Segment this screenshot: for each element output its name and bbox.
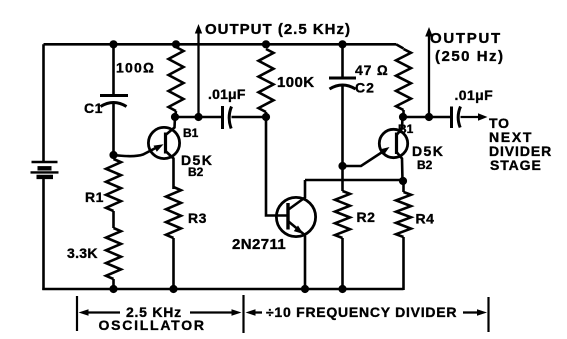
node C2 / R2 / Q3 emitter junction <box>338 162 346 170</box>
dimension tick middle <box>242 295 244 333</box>
battery B1 (supply) <box>32 161 58 163</box>
wire Q2 emitter lead <box>289 222 306 290</box>
dimension arrow right of middle tick <box>246 309 256 316</box>
svg-text:B1: B1 <box>183 126 199 140</box>
wire Q3 B2 lead <box>397 152 403 181</box>
node 47 ohm / Q3 B1 <box>399 113 407 121</box>
capacitor .01uF coupling (right) <box>450 107 453 129</box>
svg-text:OUTPUT: OUTPUT <box>430 30 502 47</box>
wire output 250Hz tap vertical <box>428 33 430 117</box>
arrow Q2 emitter <box>294 226 304 235</box>
wire C2 top lead <box>341 44 344 78</box>
svg-text:STAGE: STAGE <box>490 157 542 173</box>
wire B1 line to coupling capacitor <box>199 116 223 119</box>
wire 100K junction down to Q2 base <box>266 117 287 216</box>
svg-text:3.3K: 3.3K <box>67 245 98 261</box>
svg-text:C1: C1 <box>84 100 103 116</box>
dimension line oscillator right segment <box>190 311 233 313</box>
resistor R2 <box>335 191 350 238</box>
wire C1 top lead <box>112 44 115 95</box>
svg-text:B2: B2 <box>188 165 204 179</box>
wire left supply vertical <box>42 44 45 162</box>
wire C2 bottom lead <box>341 86 344 166</box>
wire Q2 collector to R4/B2 junction <box>305 179 403 182</box>
wire Q1 B2 lead <box>166 151 174 189</box>
wire Q3 B1 lead <box>397 117 403 135</box>
resistor R3 <box>166 187 181 238</box>
svg-text:100K: 100K <box>277 74 314 91</box>
wire left vertical below battery <box>42 177 45 290</box>
wire C1 bottom lead <box>112 104 115 156</box>
wire Q1 B1 lead <box>166 117 176 135</box>
svg-text:B2: B2 <box>417 158 433 172</box>
dimension tick left (oscillator section) <box>76 296 78 331</box>
resistor 47 ohm <box>396 44 404 48</box>
dimension tick right <box>487 297 489 332</box>
node 100K / coupling cap / base wire <box>262 113 270 121</box>
node Q3 B2 / collector line / R4 <box>399 177 407 185</box>
arrow output 250Hz <box>425 27 433 37</box>
node top rail / C1 <box>109 40 117 48</box>
wire output 2.5KHz tap vertical <box>197 30 199 117</box>
transistor Q2 2N2711 <box>276 197 315 236</box>
svg-text:R1: R1 <box>85 189 104 205</box>
svg-text:C2: C2 <box>355 80 375 96</box>
wire coupling cap to 100K junction <box>232 116 267 119</box>
node output tap 250Hz <box>425 113 433 121</box>
svg-text:.01μF: .01μF <box>455 87 494 103</box>
wire B1 line to output tap 250Hz <box>403 116 429 119</box>
arrow to next divider stage <box>478 113 488 121</box>
node R1 to ground rail <box>109 285 117 293</box>
resistor 100 ohm <box>169 47 184 111</box>
wire B1 line to right coupling cap <box>429 116 452 119</box>
resistor R1 <box>106 159 121 211</box>
dimension arrow into middle tick <box>232 309 242 316</box>
wire bottom ground rail <box>42 288 403 291</box>
arrow output 2.5KHz <box>195 24 202 34</box>
wire top supply rail <box>44 43 397 46</box>
wire right cap to next stage arrow <box>461 116 483 118</box>
resistor R4 <box>402 181 405 192</box>
svg-text:D5K: D5K <box>412 143 444 159</box>
dimension arrow left oscillator <box>79 309 89 316</box>
transistor Q1 D5K unijunction <box>148 127 179 158</box>
Q2 base bar <box>286 203 289 230</box>
svg-text:100Ω: 100Ω <box>116 60 155 76</box>
Q1 base bar <box>164 133 167 154</box>
wire Q3 emitter lead <box>343 152 384 167</box>
node top rail / 100K <box>262 40 270 48</box>
node Q2 emitter to ground rail <box>301 285 309 293</box>
resistor 100K <box>259 49 274 112</box>
capacitor C2 <box>329 77 356 80</box>
wire R2 top lead <box>341 166 344 191</box>
svg-text:R2: R2 <box>357 209 376 225</box>
wire B1 line to output tap <box>175 116 199 119</box>
Q3 base bar <box>395 133 398 155</box>
svg-text:2N2711: 2N2711 <box>232 236 286 253</box>
svg-text:(250 Hz): (250 Hz) <box>435 48 505 65</box>
svg-text:OUTPUT (2.5 KHz): OUTPUT (2.5 KHz) <box>205 21 351 38</box>
node R2 to ground rail <box>338 285 346 293</box>
node R3 to ground rail <box>169 285 177 293</box>
capacitor .01uF coupling (left) <box>221 106 224 129</box>
node C1 / R1 / emitter junction <box>109 151 117 159</box>
arrow Q3 emitter <box>380 147 390 155</box>
dimension arrow right divider <box>477 309 487 316</box>
svg-text:OSCILLATOR: OSCILLATOR <box>99 317 206 333</box>
capacitor C1 <box>100 94 128 97</box>
svg-text:47 Ω: 47 Ω <box>355 62 388 78</box>
node output tap 2.5KHz <box>194 113 202 121</box>
wire Q1 emitter lead <box>114 147 159 157</box>
svg-text:B1: B1 <box>398 122 414 136</box>
svg-text:÷10 FREQUENCY DIVIDER: ÷10 FREQUENCY DIVIDER <box>266 304 457 320</box>
dimension line divider right segment <box>463 311 478 313</box>
svg-text:R3: R3 <box>188 210 207 226</box>
svg-text:.01μF: .01μF <box>208 86 246 102</box>
svg-text:R4: R4 <box>416 211 435 227</box>
node top rail / 100 ohm resistor <box>172 40 180 48</box>
node top rail / C2 <box>338 40 346 48</box>
transistor Q3 D5K unijunction <box>379 129 407 157</box>
arrow Q1 emitter <box>154 144 164 152</box>
wire Q2 collector lead <box>289 180 306 210</box>
node B1 of Q1 / 100 ohm resistor <box>171 113 179 121</box>
